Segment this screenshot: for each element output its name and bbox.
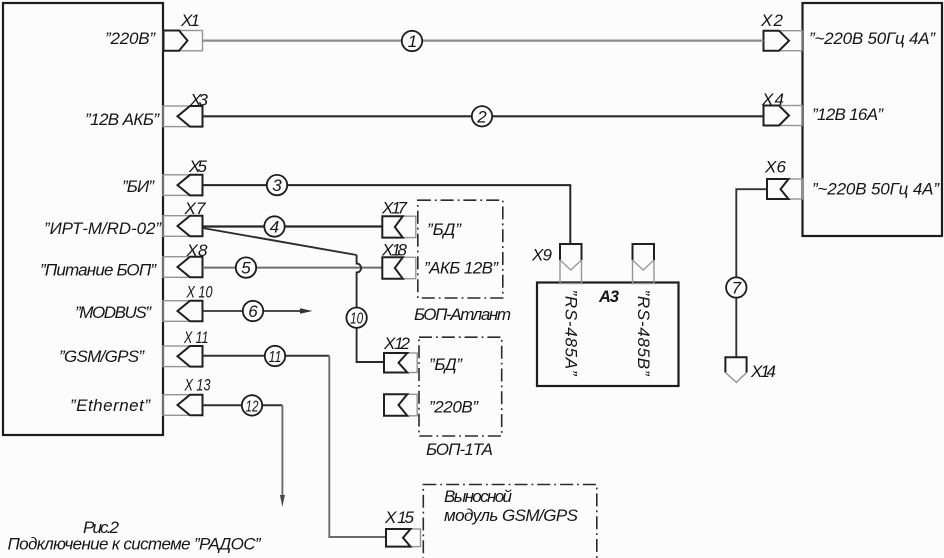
terminator X14 xyxy=(725,357,746,382)
svg-text:2: 2 xyxy=(476,107,487,126)
svg-text:”Ethernet”: ”Ethernet” xyxy=(70,396,151,415)
wire 1 xyxy=(203,39,764,41)
right device box xyxy=(803,3,943,236)
svg-text:X 14: X 14 xyxy=(750,362,776,381)
svg-text:X7: X7 xyxy=(184,199,207,218)
wire 3 xyxy=(203,185,571,244)
dashed box Выносной модуль GSM/GPS xyxy=(423,485,597,558)
svg-text:Выносной: Выносной xyxy=(444,487,513,506)
svg-text:”ИРТ-М/RD-02”: ”ИРТ-М/RD-02” xyxy=(44,219,162,238)
callout circle 4 xyxy=(264,216,284,236)
callout circle 1 xyxy=(402,31,422,51)
wire 12 with down arrow xyxy=(203,405,285,507)
svg-text:1: 1 xyxy=(408,32,417,51)
svg-text:БОП-Атлант: БОП-Атлант xyxy=(414,305,511,324)
svg-text:”АКБ 12В”: ”АКБ 12В” xyxy=(424,259,499,278)
svg-text:12: 12 xyxy=(246,398,259,415)
wire 10 diagonal from X7 xyxy=(203,228,357,255)
connector X9 xyxy=(560,244,582,284)
svg-text:”220В”: ”220В” xyxy=(105,29,156,48)
connector X6 xyxy=(767,179,803,199)
svg-text:X8: X8 xyxy=(186,241,209,260)
connector X1 xyxy=(163,31,203,51)
callout circle 2 xyxy=(472,106,492,126)
svg-text:X 12: X 12 xyxy=(383,334,411,353)
svg-text:X3: X3 xyxy=(189,91,209,110)
svg-text:10: 10 xyxy=(350,311,363,328)
svg-text:X 15: X 15 xyxy=(384,508,415,527)
svg-text:X 11: X 11 xyxy=(183,328,208,347)
callout circle 11 xyxy=(265,346,285,366)
svg-text:модуль GSM/GPS: модуль GSM/GPS xyxy=(444,506,579,525)
connector X18 xyxy=(382,257,416,278)
svg-text:X4: X4 xyxy=(761,90,784,109)
callout circle 5 xyxy=(236,257,256,277)
connector RS-485B port xyxy=(633,244,655,284)
svg-text:X6: X6 xyxy=(764,158,787,177)
connector X11 xyxy=(163,346,203,367)
svg-text:6: 6 xyxy=(248,302,258,321)
svg-text:”БД”: ”БД” xyxy=(429,355,463,374)
wire 7 xyxy=(736,189,767,357)
callout circle 10 xyxy=(346,308,366,328)
svg-text:3: 3 xyxy=(272,176,282,195)
svg-text:X9: X9 xyxy=(531,246,553,265)
svg-text:”~220В 50Гц 4А”: ”~220В 50Гц 4А” xyxy=(812,180,940,199)
svg-text:А3: А3 xyxy=(598,288,619,306)
svg-text:”12В 16А”: ”12В 16А” xyxy=(812,105,884,124)
connector X3 xyxy=(163,106,203,127)
connector X7 xyxy=(163,216,203,237)
connector X12 xyxy=(384,353,417,373)
callout circle 12 xyxy=(242,395,262,415)
svg-text:11: 11 xyxy=(269,349,282,366)
svg-text:”12В АКБ”: ”12В АКБ” xyxy=(85,110,160,129)
callout circle 7 xyxy=(726,277,746,297)
svg-text:”Питание БОП”: ”Питание БОП” xyxy=(40,261,157,280)
block A3 xyxy=(537,283,679,387)
dashed box БОП-Атлант xyxy=(418,200,503,298)
svg-text:X 13: X 13 xyxy=(184,376,211,395)
dashed box БОП-1ТА xyxy=(419,337,502,436)
connector X13 xyxy=(163,395,203,416)
wire 10 vertical with hop over wire 5 xyxy=(357,255,384,362)
svg-text:X2: X2 xyxy=(760,11,784,30)
connector X17 xyxy=(382,216,416,237)
svg-text:БОП-1ТА: БОП-1ТА xyxy=(426,440,493,459)
wire 11 xyxy=(203,355,330,357)
connector "220В" of БОП-1ТА xyxy=(384,394,417,416)
svg-text:”БД”: ”БД” xyxy=(427,220,462,239)
svg-text:”220В”: ”220В” xyxy=(429,398,479,417)
connector X2 xyxy=(764,31,803,51)
connector X4 xyxy=(764,106,803,126)
svg-text:X 17: X 17 xyxy=(381,199,408,218)
wire 4 xyxy=(203,225,383,227)
svg-text:”GSM/GPS”: ”GSM/GPS” xyxy=(59,347,145,366)
wire 5 xyxy=(203,267,383,269)
svg-text:X5: X5 xyxy=(188,157,208,176)
callout circle 3 xyxy=(267,175,287,195)
left device box xyxy=(3,3,163,435)
svg-text:X 10: X 10 xyxy=(186,283,213,302)
connector X8 xyxy=(163,257,203,278)
wire 2 xyxy=(203,115,764,117)
svg-text:X 18: X 18 xyxy=(381,241,408,260)
svg-text:”~220В 50Гц 4А”: ”~220В 50Гц 4А” xyxy=(809,29,936,48)
svg-text:5: 5 xyxy=(241,259,251,278)
svg-text:”MODBUS”: ”MODBUS” xyxy=(75,303,152,322)
wire 6 with arrow xyxy=(203,308,313,314)
svg-text:”RS-485B”: ”RS-485B” xyxy=(634,290,653,377)
connector X5 xyxy=(163,175,203,196)
svg-text:7: 7 xyxy=(732,279,742,298)
svg-text:4: 4 xyxy=(270,218,279,237)
svg-text:Подключение к системе ”РАДОС”: Подключение к системе ”РАДОС” xyxy=(8,535,262,554)
callout circle 6 xyxy=(243,301,263,321)
svg-text:”RS-485A”: ”RS-485A” xyxy=(562,290,581,377)
svg-text:X1: X1 xyxy=(180,11,200,30)
svg-text:”БИ”: ”БИ” xyxy=(122,177,155,196)
connector X15 xyxy=(386,529,421,547)
connector X10 xyxy=(163,301,203,322)
